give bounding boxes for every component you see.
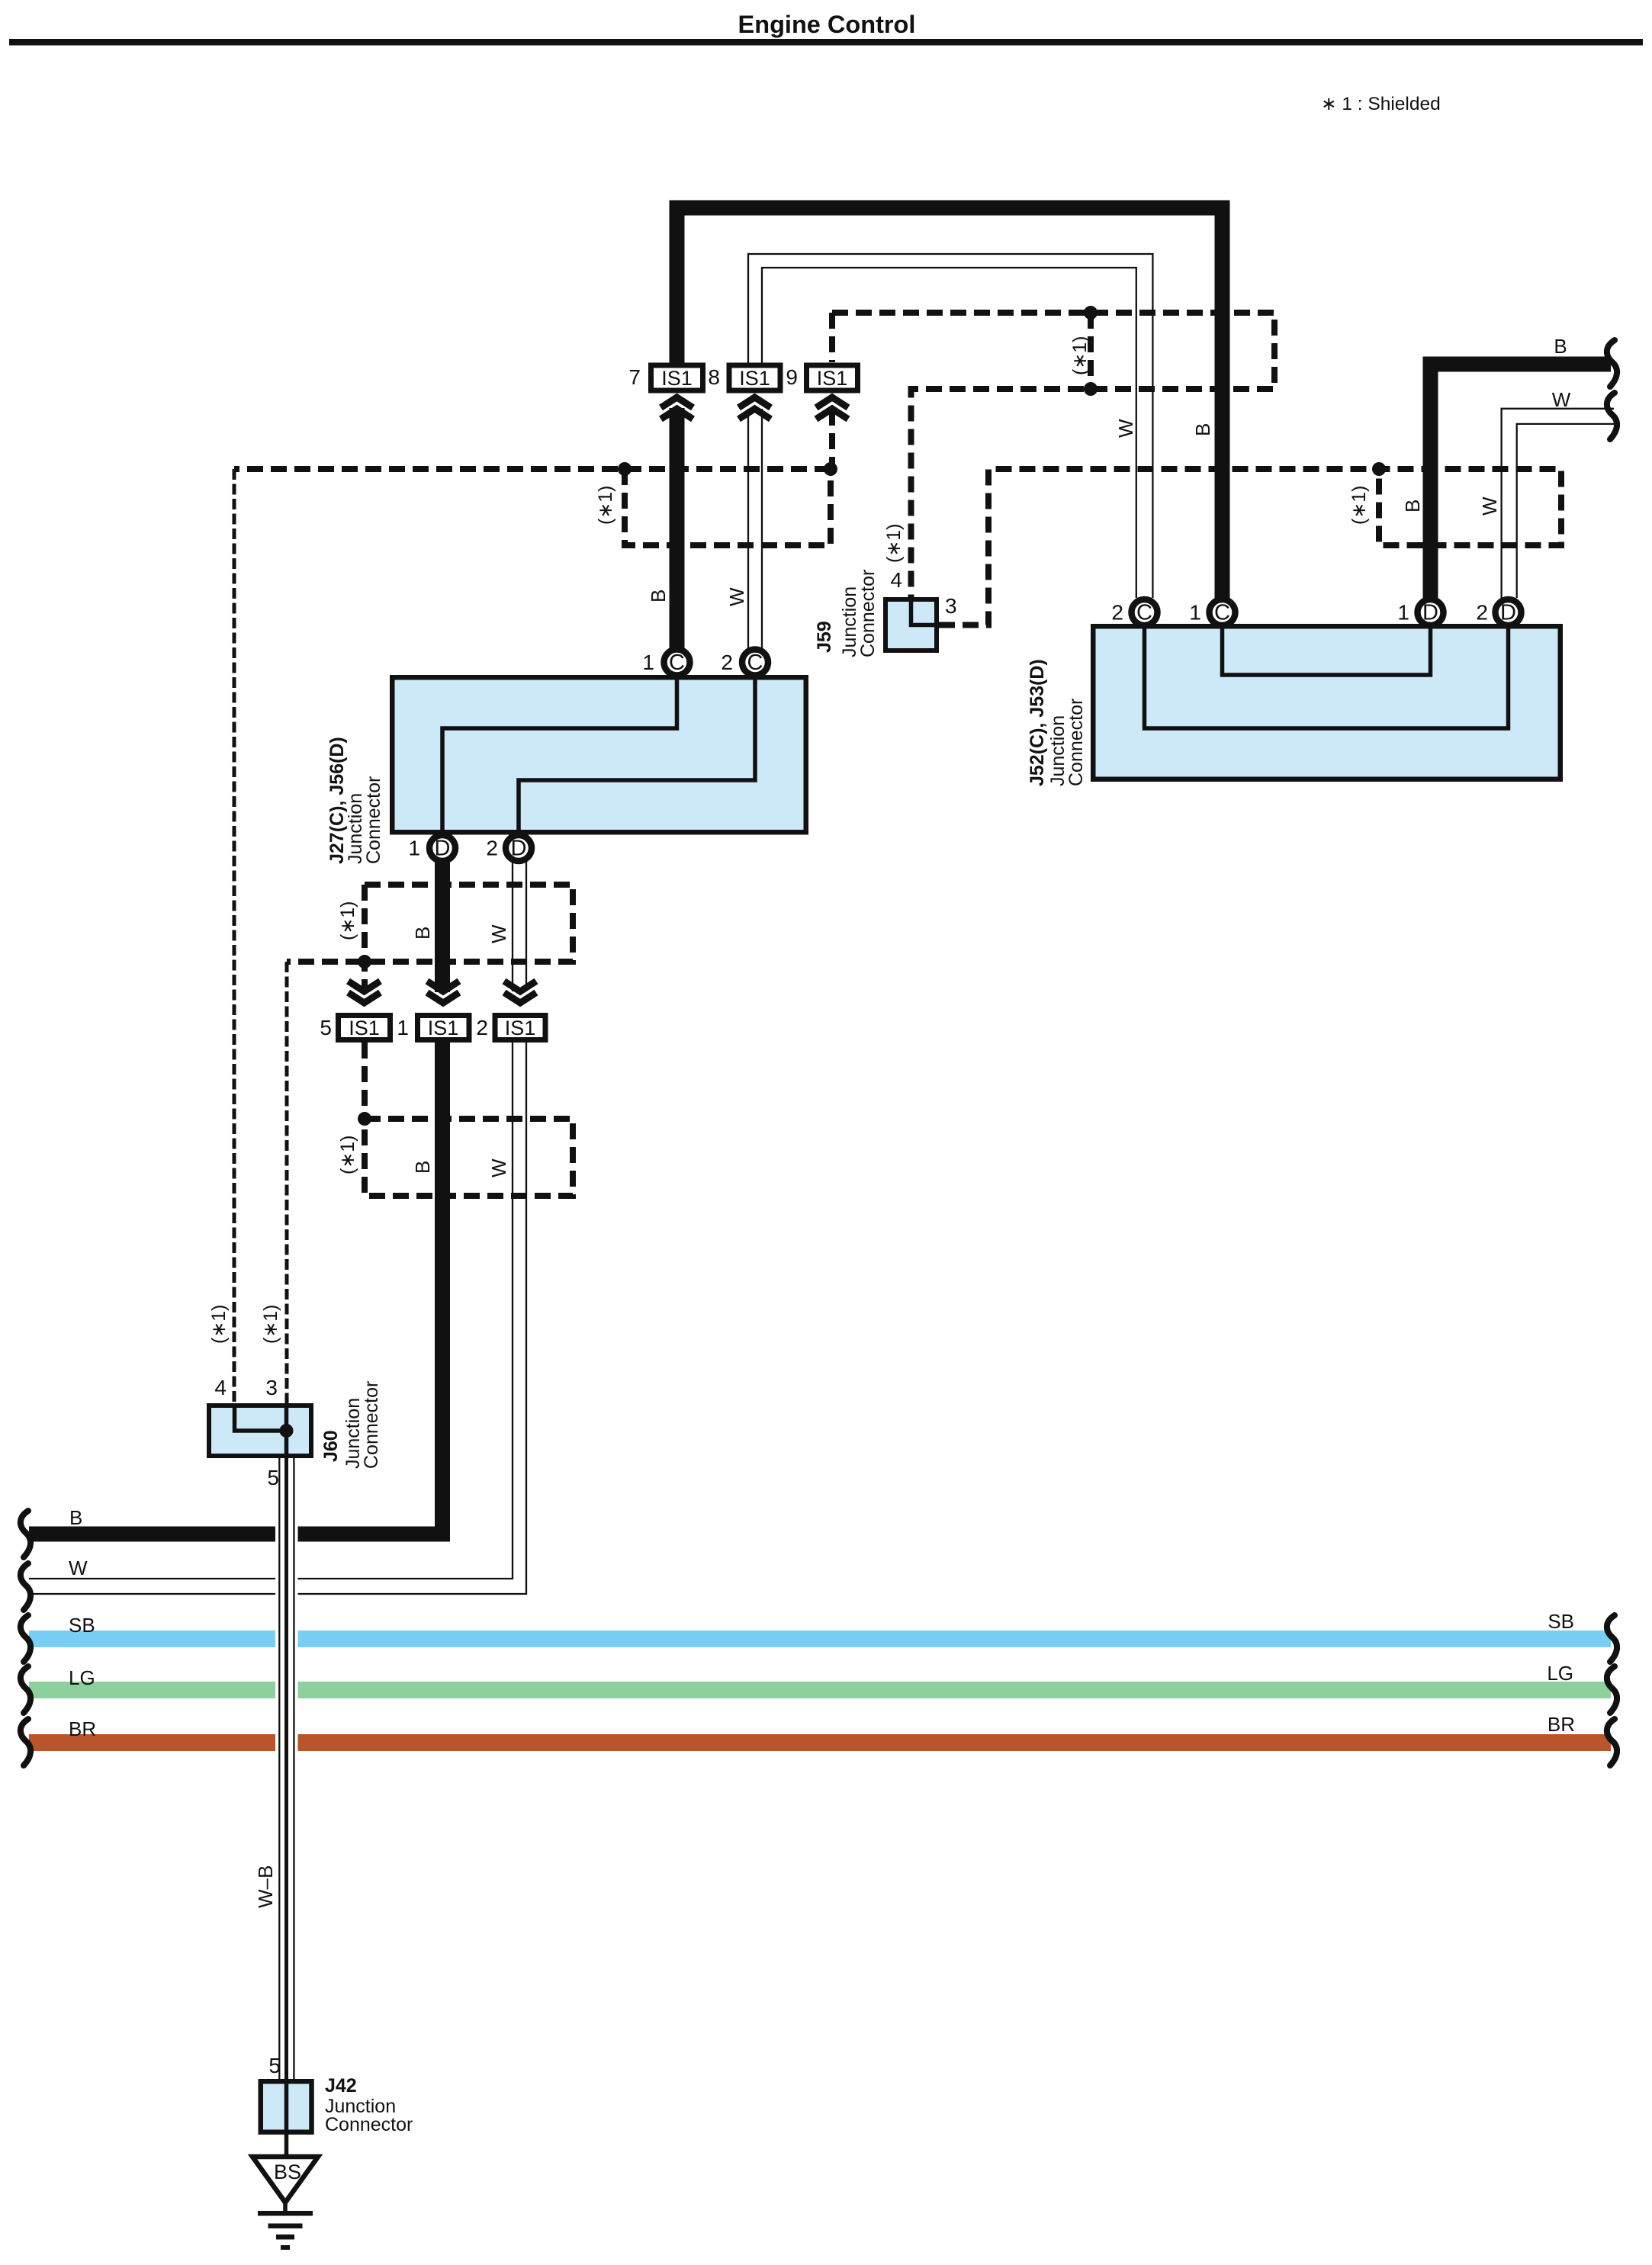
shield dashed from J59 pin 3 up to right horizontal — [939, 469, 1561, 625]
svg-text:1: 1 — [408, 837, 420, 860]
wire BR horizontal — [29, 1734, 1611, 1751]
shield junction dot D — [1084, 382, 1098, 396]
svg-text:Connector: Connector — [361, 1381, 382, 1469]
svg-text:(∗1): (∗1) — [208, 1304, 230, 1344]
svg-text:LG: LG — [1547, 1662, 1573, 1685]
svg-text:C: C — [1214, 601, 1230, 625]
connector IS1 pin 7 — [628, 365, 702, 419]
svg-text:5: 5 — [268, 2054, 281, 2077]
svg-text:4: 4 — [890, 568, 902, 592]
svg-text:IS1: IS1 — [349, 1017, 380, 1039]
wire W right outer line to J52 pin 2D — [1502, 409, 1614, 598]
ground BS triangle — [252, 2157, 318, 2250]
shield dashed above IS1-9 — [829, 313, 835, 362]
svg-text:(∗1): (∗1) — [337, 1135, 358, 1174]
squiggle break W right — [1607, 393, 1617, 439]
svg-text:BS: BS — [274, 2161, 301, 2183]
squiggle break BR left — [21, 1719, 31, 1765]
svg-text:2: 2 — [1476, 601, 1488, 625]
svg-text:B: B — [411, 927, 434, 940]
shield dashed IS1-5 to box3 — [362, 1043, 368, 1119]
junction connector J59 box — [885, 597, 939, 651]
shield junction dot F — [358, 955, 371, 969]
squiggle break LG right — [1607, 1666, 1617, 1713]
svg-text:(∗1): (∗1) — [883, 523, 905, 563]
svg-text:W: W — [725, 587, 748, 606]
pin circle J52 1C — [1189, 599, 1235, 625]
J59 label — [814, 570, 879, 657]
svg-text:8: 8 — [708, 365, 720, 389]
svg-text:B: B — [69, 1506, 82, 1529]
wire B top loop IS1-7 to J52 pin 1C — [677, 208, 1223, 599]
pin circle J27 1D — [408, 835, 455, 861]
svg-text:BR: BR — [69, 1717, 96, 1740]
connector IS1 pin 5 — [320, 981, 390, 1040]
svg-text:W: W — [69, 1557, 88, 1579]
svg-text:1: 1 — [1397, 601, 1409, 625]
svg-text:D: D — [1500, 601, 1516, 625]
pin circle J27 2D — [486, 835, 532, 861]
svg-text:Connector: Connector — [857, 570, 879, 657]
pin circle J27 1C — [642, 650, 689, 676]
svg-text:B: B — [1191, 423, 1214, 436]
svg-text:(∗1): (∗1) — [1069, 336, 1091, 375]
shield dashed below IS1-9 down to node — [829, 410, 835, 469]
shield dashed box 2 below J27 — [287, 885, 573, 962]
pin circle J52 1D — [1397, 599, 1443, 625]
svg-text:(∗1): (∗1) — [337, 901, 358, 940]
squiggle break SB right — [1607, 1615, 1617, 1662]
wire W right inner line — [1517, 424, 1614, 598]
wire W top loop inner line — [762, 268, 1136, 598]
wire W from J27 pin 2D down then left to page edge, outer line — [512, 859, 513, 991]
svg-text:Connector: Connector — [363, 776, 384, 864]
svg-text:W: W — [487, 924, 510, 943]
svg-text:W: W — [1114, 419, 1137, 438]
shield dashed top loop: over B/W wires to right corner and back to J59 pin 4 — [832, 313, 1274, 597]
svg-text:B: B — [1401, 500, 1424, 512]
connector IS1 pin 9 — [786, 365, 857, 419]
squiggle break B right — [1607, 340, 1617, 387]
pin circle J27 2C — [721, 650, 768, 676]
junction connector J42 box — [261, 2079, 312, 2135]
svg-text:(∗1): (∗1) — [260, 1304, 281, 1344]
header rule — [9, 39, 1643, 46]
svg-text:2: 2 — [721, 651, 733, 674]
svg-text:Connector: Connector — [1065, 699, 1087, 786]
junction connector J52(C), J53(D) box — [1093, 624, 1560, 779]
svg-text:IS1: IS1 — [661, 367, 693, 390]
svg-text:B: B — [647, 590, 670, 602]
svg-text:3: 3 — [945, 594, 957, 618]
svg-text:LG: LG — [69, 1666, 95, 1689]
svg-text:9: 9 — [786, 365, 798, 389]
svg-text:(∗1): (∗1) — [595, 485, 616, 525]
shield junction dot E — [1372, 462, 1386, 476]
svg-text:W: W — [487, 1158, 510, 1177]
wire from J42 down to ground — [284, 2135, 289, 2158]
wire W-B from J60 pin 5 down to J42 — [279, 1458, 294, 2079]
svg-text:∗ 1 : Shielded: ∗ 1 : Shielded — [1321, 94, 1441, 114]
shield dashed box 3 — [365, 1119, 573, 1196]
squiggle break B left — [21, 1511, 31, 1557]
svg-text:7: 7 — [628, 365, 641, 389]
svg-text:W–B: W–B — [254, 1865, 277, 1908]
svg-text:Connector: Connector — [325, 2114, 413, 2135]
junction connector J60 box — [209, 1403, 311, 1458]
wire SB horizontal — [29, 1630, 1611, 1647]
squiggle break SB left — [21, 1615, 31, 1662]
squiggle break LG left — [21, 1666, 31, 1713]
svg-text:D: D — [435, 837, 451, 861]
svg-text:W: W — [1552, 388, 1571, 411]
svg-text:C: C — [1136, 601, 1152, 625]
shield dashed long drop from box2 corner to J60 pin 3 — [285, 962, 289, 1403]
J42 label — [325, 2075, 413, 2135]
svg-text:J59: J59 — [814, 621, 835, 653]
svg-text:IS1: IS1 — [739, 367, 770, 390]
svg-text:B: B — [1554, 335, 1567, 358]
J52 label — [1027, 659, 1087, 786]
shield dashed from box2 down through IS1-5 — [362, 885, 368, 992]
svg-text:W: W — [1478, 496, 1501, 516]
svg-text:2: 2 — [486, 837, 498, 860]
wire B from J27 pin 1D down then left to page edge — [435, 859, 450, 992]
svg-text:C: C — [669, 651, 685, 675]
svg-text:4: 4 — [214, 1376, 227, 1399]
wire W top loop outer line IS1-8 to J52 pin 2C — [748, 254, 1152, 598]
svg-text:1: 1 — [397, 1016, 409, 1039]
shield junction dot B — [824, 462, 837, 476]
junction connector J27(C), J56(D) box — [392, 675, 806, 833]
wire W inner line — [525, 859, 527, 991]
svg-text:J42: J42 — [325, 2075, 357, 2096]
svg-text:Engine Control: Engine Control — [738, 11, 916, 38]
svg-text:IS1: IS1 — [428, 1017, 459, 1039]
svg-text:1: 1 — [1189, 601, 1201, 625]
svg-text:IS1: IS1 — [817, 367, 848, 390]
connector IS1 pin 1 — [397, 981, 469, 1040]
svg-text:IS1: IS1 — [505, 1017, 536, 1039]
wire W IS1-8 down to J27 pin 2C — [747, 409, 749, 648]
svg-text:5: 5 — [267, 1466, 279, 1489]
shield junction dot G — [358, 1112, 371, 1126]
wire B IS1-7 down to J27 pin 1C — [670, 408, 685, 648]
shield dashed horizontal left segment — [234, 466, 831, 472]
svg-text:(∗1): (∗1) — [1348, 485, 1370, 525]
J60 label — [320, 1381, 382, 1469]
shield dashed long drop from left horizontal to J60 pin 4 — [233, 469, 236, 1403]
connector IS1 pin 8 — [708, 365, 780, 419]
svg-text:J52(C), J53(D): J52(C), J53(D) — [1027, 659, 1048, 786]
svg-text:5: 5 — [320, 1016, 332, 1039]
pin circle J52 2D — [1476, 599, 1521, 625]
J27 label — [326, 737, 384, 864]
svg-text:2: 2 — [476, 1016, 488, 1039]
svg-text:SB: SB — [1548, 1610, 1574, 1633]
pin circle J52 2C — [1111, 599, 1157, 625]
wire LG horizontal — [29, 1682, 1611, 1698]
svg-text:3: 3 — [265, 1376, 278, 1399]
svg-text:B: B — [411, 1161, 434, 1174]
squiggle break BR right — [1607, 1719, 1617, 1765]
squiggle break W left — [21, 1563, 31, 1610]
shield dashed jumper with (*1) top — [1088, 313, 1094, 389]
svg-text:2: 2 — [1111, 601, 1123, 625]
svg-text:D: D — [511, 837, 527, 861]
svg-text:C: C — [747, 651, 763, 675]
shield dashed box around B/W above J27 — [625, 469, 831, 545]
svg-text:D: D — [1422, 601, 1438, 625]
wire B right top squiggle to J52 pin 1D — [1431, 365, 1612, 599]
svg-text:J60: J60 — [320, 1430, 342, 1462]
shield junction dot A — [618, 462, 632, 476]
svg-text:1: 1 — [642, 651, 654, 674]
shield junction dot C — [1084, 306, 1098, 320]
white break for W-B wire crossing — [275, 1521, 298, 1759]
svg-text:BR: BR — [1548, 1713, 1575, 1736]
svg-text:SB: SB — [69, 1614, 95, 1637]
connector IS1 pin 2 — [476, 981, 545, 1040]
